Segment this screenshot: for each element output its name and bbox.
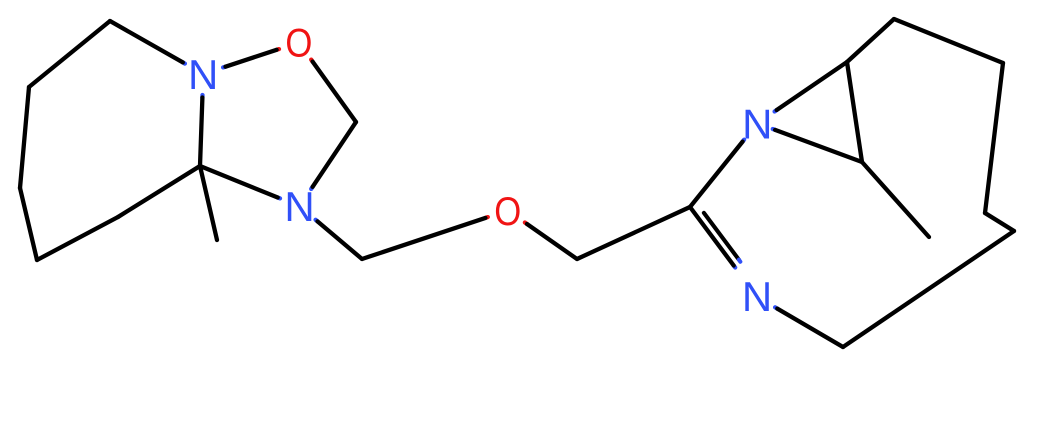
bond cage CH(P4)-CH2(A) — [37, 217, 118, 260]
bond ring C3-N2 — [200, 95, 204, 98]
svg-text:N: N — [742, 100, 772, 147]
bond cage V3-CH2(V2) — [843, 231, 1014, 347]
svg-text:O: O — [285, 22, 312, 66]
bond amidine C2-N1 — [743, 140, 745, 142]
bond CH2(M2)-amidine C2 — [577, 207, 690, 259]
svg-text:N: N — [188, 51, 218, 98]
bond ring N2-O1 — [223, 65, 225, 70]
bond cage CH2(P3)-CH(P4) — [20, 188, 37, 260]
bond ring N2-CH2(P1) — [183, 62, 185, 63]
svg-text:N: N — [742, 273, 772, 320]
bond cage V1-V6 — [847, 19, 894, 62]
bond CH2(M1)-ether O — [485, 215, 487, 220]
double bond C2=N3 outer line — [734, 266, 736, 268]
svg-text:N: N — [284, 183, 314, 230]
bond ether O-CH2(M2) — [525, 223, 527, 225]
bond cage V7-V4 — [985, 63, 1003, 213]
bond ring CH2(C5)-N4 — [311, 187, 312, 189]
svg-text:O: O — [494, 190, 521, 234]
bond methyl on V5 — [862, 162, 929, 237]
bond cage V4-V3 — [985, 213, 1014, 231]
bond N4-CH2(M1) — [316, 220, 318, 222]
bond cage V6-V7 — [894, 19, 1003, 63]
bond cage CH2(P1)-CH2(P2) — [29, 21, 110, 87]
bond CH2(V2)-N3 — [775, 307, 777, 308]
bond ring O1-CH2(C5) — [311, 60, 312, 62]
double bond C2=N3 inner line — [704, 213, 739, 260]
bond methyl on C3 — [200, 166, 217, 240]
bond cage CH2(A)-spiro C3 — [118, 166, 200, 217]
bond N1-CH2(V1) — [775, 110, 777, 112]
bond cage CH2(P2)-CH2(P3) — [20, 87, 29, 188]
bond N1-CH(V5) — [773, 127, 775, 132]
bond ring C3-N4 — [278, 195, 280, 200]
bond cage V1-V5 — [847, 62, 862, 162]
